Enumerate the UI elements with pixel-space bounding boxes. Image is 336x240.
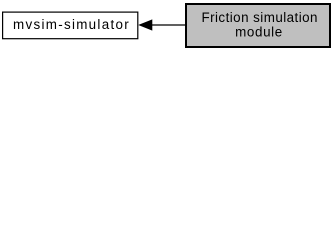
svg-text:Friction simulation: Friction simulation: [201, 10, 317, 25]
svg-text:mvsim-simulator: mvsim-simulator: [13, 17, 130, 32]
wire edge: [151, 24, 186, 26]
node mvsim-simulator: [3, 12, 138, 39]
background: [0, 0, 336, 51]
node Friction simulation module (current): [186, 4, 330, 47]
arrowhead: [140, 20, 152, 30]
svg-text:module: module: [235, 24, 283, 39]
